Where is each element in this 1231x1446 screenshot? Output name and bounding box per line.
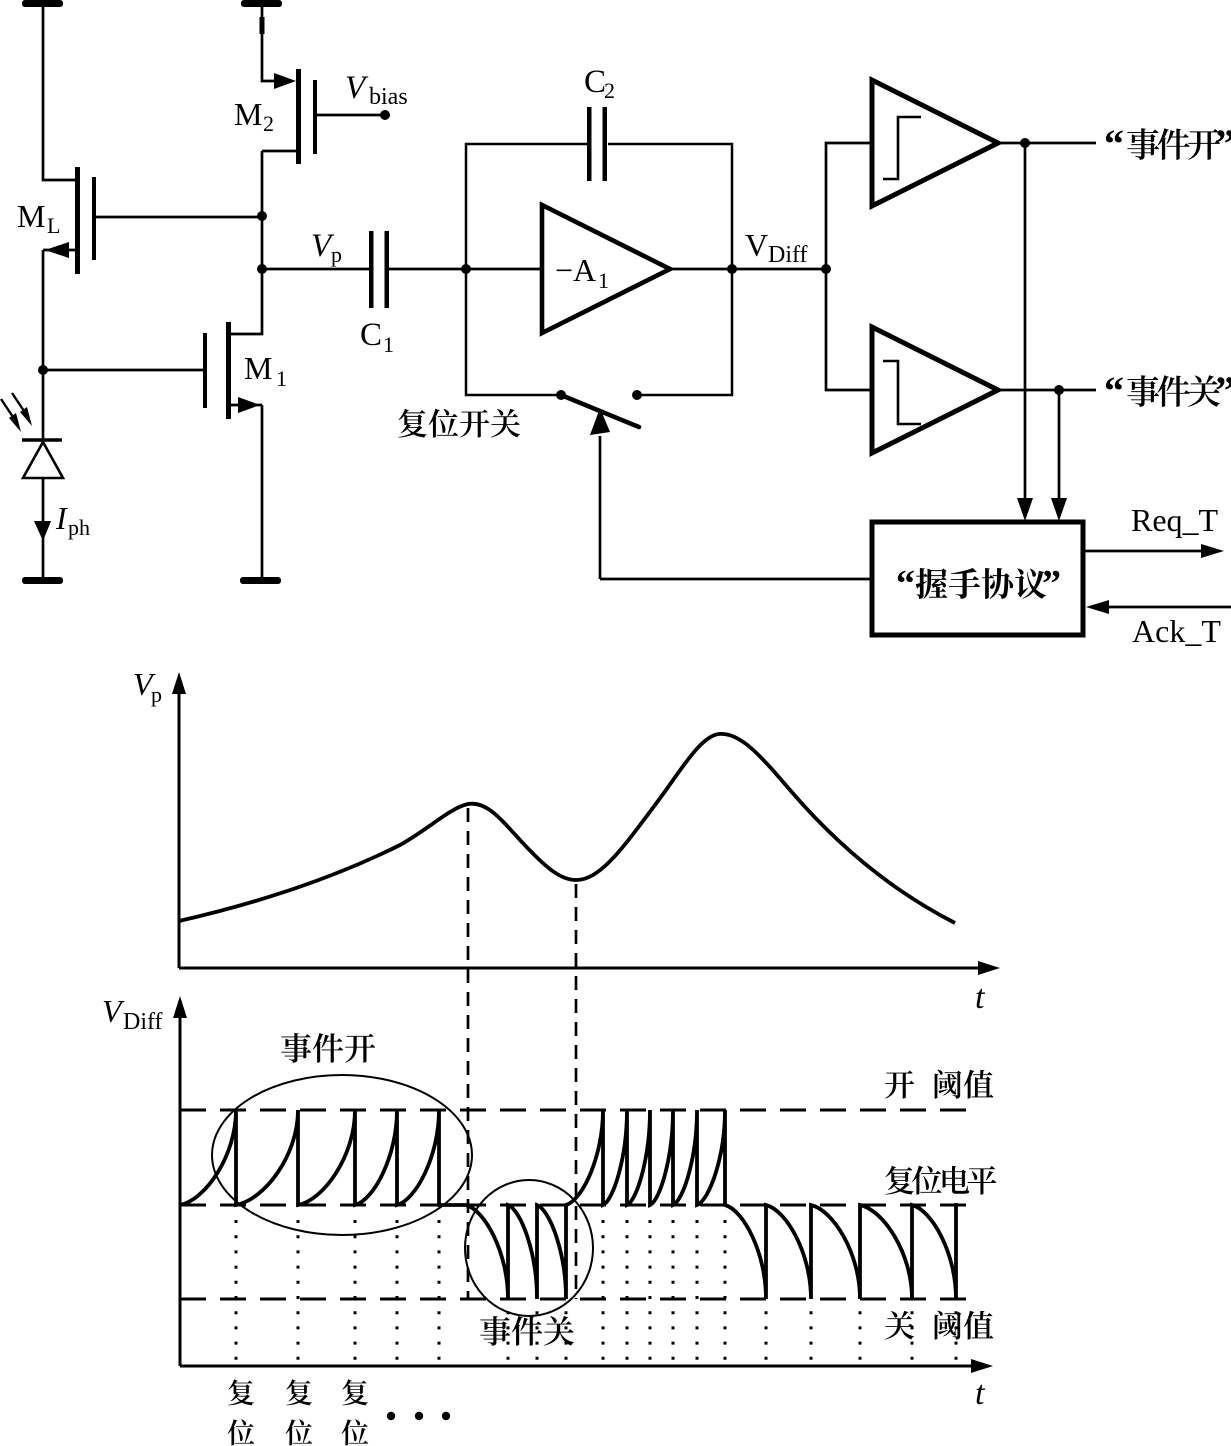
svg-text:1: 1 <box>383 332 394 357</box>
capacitor C2 <box>587 107 607 181</box>
label reset 1 (fu wei) <box>228 1379 255 1445</box>
ellipsis dots <box>387 1412 450 1420</box>
svg-text:1: 1 <box>598 268 609 293</box>
svg-text:bias: bias <box>369 84 408 110</box>
capacitor C1 <box>369 231 389 308</box>
svg-text:“: “ <box>1104 368 1124 413</box>
label ON threshold (kai yu zhi) <box>885 1070 993 1099</box>
VDiff plot x-axis <box>180 1359 993 1373</box>
wire ON output <box>998 142 1096 145</box>
Vp plot y-axis <box>172 672 186 968</box>
label I_ph <box>55 500 90 540</box>
OFF threshold dashed line <box>180 1298 977 1301</box>
wire M_L source to photodiode <box>42 250 45 370</box>
label V_bias <box>345 70 408 110</box>
current arrow I_ph <box>34 521 51 541</box>
svg-text:2: 2 <box>604 78 615 103</box>
ground (M1 branch) <box>240 577 281 584</box>
svg-text:M: M <box>234 96 262 132</box>
label ON event (shi jian kai) <box>1104 121 1231 166</box>
svg-text:p: p <box>331 242 342 267</box>
svg-text:“: “ <box>1104 121 1124 166</box>
wire V_p to C1 <box>262 268 371 271</box>
label OFF events (shi jian guan) <box>480 1316 574 1346</box>
photodiode D1 <box>22 440 63 478</box>
power rail VDD (right) <box>241 0 282 7</box>
transistor M_L <box>43 167 96 274</box>
wire OFF output to handshake <box>1051 390 1067 521</box>
label M_L <box>17 198 60 238</box>
transistor M_1 <box>203 322 262 419</box>
wire M_L gate to node A <box>96 216 262 219</box>
svg-text:p: p <box>151 682 162 707</box>
svg-text:Diff: Diff <box>768 242 808 268</box>
label OFF threshold (guan yu zhi) <box>885 1311 994 1340</box>
label V_p <box>311 228 342 267</box>
junction node V_Diff <box>821 264 831 274</box>
label OFF event (shi jian guan) <box>1104 368 1231 413</box>
power rail VDD (left) <box>22 0 63 7</box>
label V_Diff <box>745 227 808 268</box>
reset switch <box>556 390 642 427</box>
svg-text:Diff: Diff <box>123 1009 163 1035</box>
wire reset control from handshake <box>600 578 872 581</box>
svg-text:C: C <box>584 64 606 100</box>
wire C1 to amplifier input <box>389 268 542 271</box>
svg-text:−A: −A <box>555 252 596 288</box>
label C1 <box>360 317 394 357</box>
svg-text:”: ” <box>1215 121 1231 166</box>
svg-text:V: V <box>745 227 768 263</box>
wire amplifier output <box>669 268 826 271</box>
dashed marker t1 <box>467 808 470 1299</box>
svg-text:L: L <box>47 213 60 238</box>
wire Ack_T input <box>1086 600 1231 614</box>
label reset 2 (fu wei) <box>286 1379 313 1445</box>
svg-text:ph: ph <box>68 515 90 540</box>
terminal V_bias <box>380 110 390 120</box>
label Ack_T <box>1132 613 1221 649</box>
ground (photodiode branch) <box>22 577 63 584</box>
VDiff plot y-axis <box>173 996 187 1366</box>
svg-text:”: ” <box>1042 563 1061 605</box>
junction node A <box>257 211 267 221</box>
feedback box (differencing amplifier) <box>466 144 732 395</box>
label V_p (plot) <box>133 666 162 707</box>
svg-text:Ack_T: Ack_T <box>1132 613 1221 649</box>
junction box output <box>727 264 737 274</box>
wire V_Diff to comparators <box>826 143 871 390</box>
svg-text:2: 2 <box>263 111 274 136</box>
label C2 <box>584 64 615 103</box>
svg-text:M: M <box>17 198 45 234</box>
label -A1 <box>555 252 609 293</box>
label reset switch (fu wei kai guan) <box>398 409 520 438</box>
svg-text:”: ” <box>1215 368 1231 413</box>
Vp plot x-axis <box>179 961 1000 975</box>
wire ON output to handshake <box>1017 143 1033 521</box>
junction photodiode node <box>38 365 48 375</box>
label t (Vp plot) <box>975 979 986 1016</box>
label V_Diff (plot) <box>102 993 163 1035</box>
op-amp A1 <box>542 205 670 333</box>
svg-text:1: 1 <box>276 366 287 391</box>
svg-text:I: I <box>55 500 68 536</box>
junction node V_p <box>257 264 267 274</box>
wire OFF output <box>998 389 1096 392</box>
circle OFF events <box>465 1180 593 1316</box>
label handshake protocol <box>896 563 1061 605</box>
VDiff signal waveform <box>180 1110 958 1299</box>
handshake block (wo shou xie yi) <box>872 522 1083 635</box>
wire VDD to M_2 drain <box>260 7 275 81</box>
wire node A to node V_p <box>261 216 264 269</box>
svg-text:t: t <box>975 1375 986 1412</box>
wire M_2 gate to V_bias <box>317 114 385 117</box>
Vp signal curve <box>179 734 955 923</box>
dotted reset markers <box>236 1220 956 1372</box>
junction amplifier input node <box>461 264 471 274</box>
wire node V_p to M_1 drain <box>231 269 262 334</box>
ON threshold dashed line <box>180 1109 977 1112</box>
comparator ON (rising threshold) <box>872 80 998 206</box>
svg-text:“: “ <box>896 563 915 605</box>
transistor M_2 <box>262 69 317 164</box>
wire M_1 gate <box>43 369 203 372</box>
svg-text:t: t <box>975 979 986 1016</box>
wire Req_T output <box>1083 544 1224 558</box>
ellipse ON events <box>212 1075 472 1235</box>
comparator OFF (falling threshold) <box>872 327 998 453</box>
label M_2 <box>234 96 274 136</box>
wire node to photodiode anode <box>42 370 45 440</box>
wire photodiode to ground <box>42 477 45 577</box>
wire M_1 source to ground <box>261 405 264 577</box>
label M_1 <box>244 350 287 391</box>
light arrow 2 <box>12 393 32 426</box>
svg-text:C: C <box>360 317 382 353</box>
svg-text:M: M <box>244 350 272 386</box>
label Req_T <box>1131 502 1219 538</box>
label reset 3 (fu wei) <box>342 1379 369 1445</box>
light arrow 1 <box>1 399 21 432</box>
dashed marker t2 <box>575 884 578 1299</box>
wire VDD to M_L drain <box>43 7 75 180</box>
label ON events (shi jian kai) <box>281 1033 375 1063</box>
wire M_2 source to node A <box>261 151 264 216</box>
junction ON output <box>1020 138 1030 148</box>
reset control arrow <box>590 408 610 579</box>
junction OFF output <box>1054 385 1064 395</box>
label reset level (fu wei dian ping) <box>885 1166 996 1195</box>
label t (VDiff plot) <box>975 1375 986 1412</box>
svg-text:Req_T: Req_T <box>1131 502 1219 538</box>
reset level dashed line <box>180 1204 977 1207</box>
